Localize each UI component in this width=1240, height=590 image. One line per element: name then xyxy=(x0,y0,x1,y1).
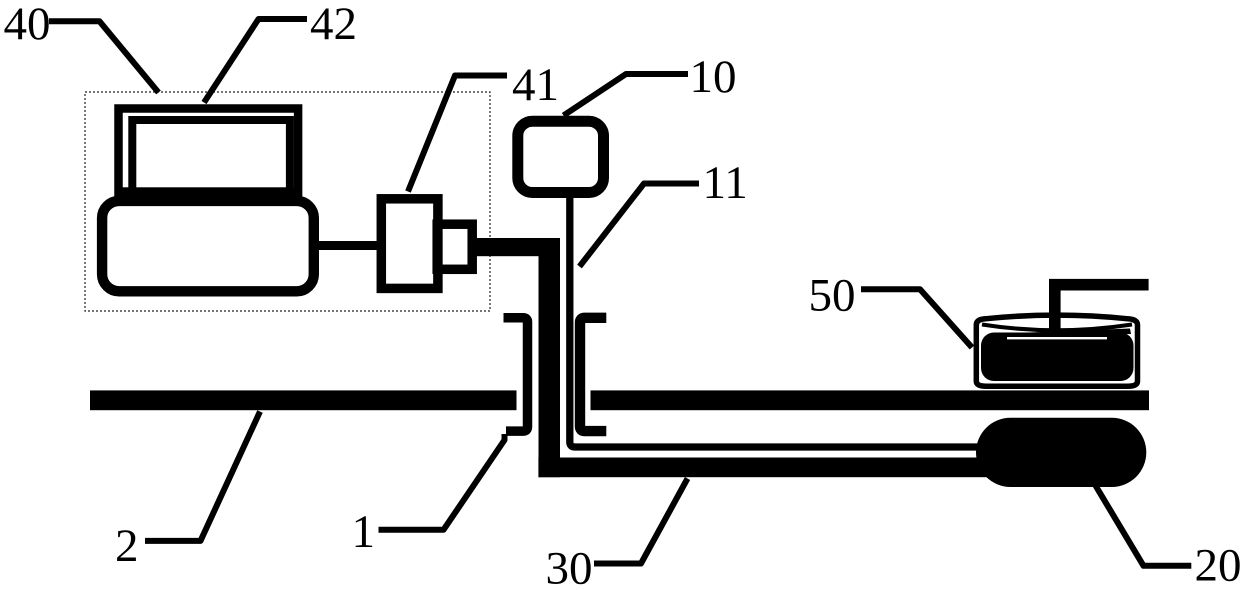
leader 50 xyxy=(861,289,972,347)
dish 50 black fill xyxy=(981,333,1134,382)
thick line 30 xyxy=(538,458,998,478)
thick wire small box to pipe xyxy=(474,238,560,256)
right bracket fitting xyxy=(580,318,606,431)
dashed enclosure box 40 xyxy=(85,92,490,311)
leader 1 xyxy=(379,434,505,530)
svg-text:1: 1 xyxy=(352,506,376,558)
L-line above dish xyxy=(1055,285,1149,329)
left bracket fitting 1 xyxy=(504,318,528,431)
connector wire body to box 41 xyxy=(314,241,378,250)
leader 41 xyxy=(408,76,507,192)
display 42 bottom bar xyxy=(122,187,299,201)
dish 50 outline xyxy=(976,315,1137,386)
svg-text:2: 2 xyxy=(115,520,139,572)
valve box 10 xyxy=(518,121,604,192)
svg-text:42: 42 xyxy=(310,0,357,50)
small box on 41 xyxy=(437,224,472,269)
svg-text:30: 30 xyxy=(546,542,593,590)
leader 40 xyxy=(49,21,159,92)
leader 10 xyxy=(564,74,689,116)
leader 30 xyxy=(594,479,688,564)
display 42 outer frame xyxy=(119,109,299,198)
dish 50 rim inner arc xyxy=(982,325,1132,331)
svg-text:50: 50 xyxy=(809,270,856,322)
svg-text:20: 20 xyxy=(1195,539,1240,590)
vertical pipe xyxy=(539,238,561,477)
capsule tool 20 xyxy=(976,418,1146,487)
casing bar 2 right segment xyxy=(591,390,1150,410)
leader 11 xyxy=(580,184,700,267)
dish 50 streak above fill xyxy=(1016,329,1131,338)
leader 2 xyxy=(145,412,260,541)
svg-text:41: 41 xyxy=(512,59,559,111)
dish 50 white scratch xyxy=(1007,337,1107,339)
display 42 inner frame xyxy=(132,120,290,194)
leader 20 xyxy=(1096,486,1192,566)
box 41 xyxy=(381,199,438,289)
casing bar 2 left segment xyxy=(90,390,517,410)
host body rounded box xyxy=(102,201,314,291)
leader 42 xyxy=(204,19,307,103)
svg-text:10: 10 xyxy=(690,51,737,103)
svg-text:11: 11 xyxy=(703,157,748,209)
svg-text:40: 40 xyxy=(4,0,51,50)
line 11 from box 10 down and right xyxy=(570,197,1000,447)
